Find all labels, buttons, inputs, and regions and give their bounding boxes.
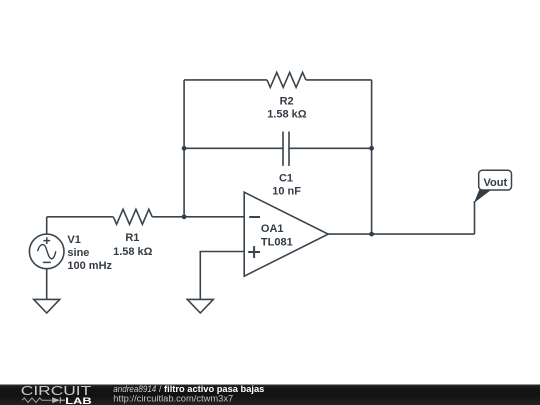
svg-text:TL081: TL081 bbox=[261, 237, 293, 249]
wire R1 to op-amp minus input bbox=[152, 216, 244, 218]
wire top feedback right segment bbox=[306, 79, 372, 81]
svg-text:R1: R1 bbox=[125, 232, 139, 244]
svg-text:sine: sine bbox=[67, 247, 89, 259]
wire left vertical feedback bbox=[183, 80, 185, 217]
wire C1 to right vertical bbox=[289, 147, 372, 149]
capacitor C1 bbox=[283, 132, 289, 166]
ground under V1 bbox=[34, 299, 60, 313]
wire V1 top stub bbox=[46, 217, 48, 234]
V1 plus sign bbox=[43, 237, 50, 244]
wire right vertical feedback bbox=[371, 80, 373, 234]
junction node at left vertical / mid wire bbox=[182, 146, 187, 151]
wire V1 bottom stub bbox=[46, 269, 48, 300]
wire mid left to C1 bbox=[184, 147, 283, 149]
svg-text:http://circuitlab.com/ctwm3x7: http://circuitlab.com/ctwm3x7 bbox=[113, 394, 233, 404]
svg-text:andrea8914 / filtro activo pas: andrea8914 / filtro activo pasa bajas bbox=[113, 384, 264, 394]
logo diode bbox=[52, 397, 60, 403]
resistor R2 bbox=[267, 72, 306, 87]
wire output up to Vout flag bbox=[474, 201, 476, 234]
svg-text:1.58 kΩ: 1.58 kΩ bbox=[267, 109, 307, 121]
wire top feedback left segment bbox=[184, 79, 267, 81]
svg-text:Vout: Vout bbox=[483, 177, 507, 189]
V1 minus sign bbox=[43, 261, 51, 263]
svg-text:OA1: OA1 bbox=[261, 223, 284, 235]
svg-text:1.58 kΩ: 1.58 kΩ bbox=[113, 246, 153, 258]
resistor R1 bbox=[113, 209, 152, 224]
svg-text:100 mHz: 100 mHz bbox=[67, 260, 112, 272]
junction node at right vertical / mid wire bbox=[369, 146, 374, 151]
wire input to R1 bbox=[47, 216, 114, 218]
ground at op-amp plus bbox=[187, 299, 213, 313]
svg-text:C1: C1 bbox=[279, 172, 293, 184]
svg-text:R2: R2 bbox=[280, 95, 294, 107]
Vout flag pointer bbox=[474, 190, 492, 203]
op-amp OA1 triangle bbox=[244, 192, 328, 276]
svg-text:10 nF: 10 nF bbox=[272, 185, 301, 197]
wire output bbox=[328, 233, 475, 235]
op-amp minus sign bbox=[249, 216, 260, 218]
V1 sine symbol bbox=[38, 245, 56, 259]
svg-text:V1: V1 bbox=[67, 234, 80, 246]
logo schematic squiggle: resistor bbox=[22, 398, 52, 403]
wire plus input bbox=[200, 252, 244, 300]
junction node at output wire bbox=[369, 232, 374, 237]
svg-text:LAB: LAB bbox=[65, 396, 91, 405]
source V1 circle bbox=[29, 234, 64, 269]
op-amp plus sign bbox=[248, 246, 260, 258]
Vout flag box bbox=[479, 170, 512, 190]
junction node at input wire bbox=[182, 214, 187, 219]
